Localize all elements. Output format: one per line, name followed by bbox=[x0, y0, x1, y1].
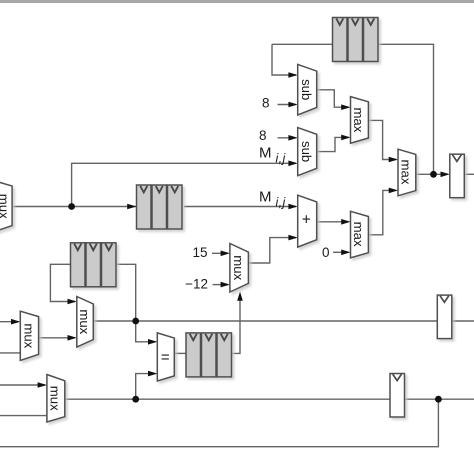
svg-text:mux: mux bbox=[231, 255, 246, 280]
svg-text:8: 8 bbox=[262, 96, 270, 111]
svg-text:15: 15 bbox=[192, 245, 207, 260]
svg-text:max: max bbox=[399, 160, 414, 185]
svg-text:M: M bbox=[259, 189, 272, 206]
svg-text:mux: mux bbox=[48, 386, 63, 411]
svg-text:mux: mux bbox=[0, 194, 11, 219]
svg-text:+: + bbox=[302, 212, 311, 229]
svg-text:−12: −12 bbox=[185, 277, 208, 292]
svg-text:8: 8 bbox=[259, 128, 267, 143]
svg-text:0: 0 bbox=[322, 245, 330, 260]
svg-text:=: = bbox=[161, 349, 170, 366]
svg-text:mux: mux bbox=[77, 309, 92, 334]
svg-text:mux: mux bbox=[21, 323, 36, 348]
svg-text:M: M bbox=[259, 145, 272, 162]
svg-text:max: max bbox=[351, 222, 366, 247]
svg-text:i,j: i,j bbox=[276, 152, 287, 166]
svg-text:i,j: i,j bbox=[276, 196, 287, 210]
svg-text:max: max bbox=[351, 107, 366, 132]
svg-text:sub: sub bbox=[299, 79, 314, 100]
svg-text:sub: sub bbox=[299, 141, 314, 162]
